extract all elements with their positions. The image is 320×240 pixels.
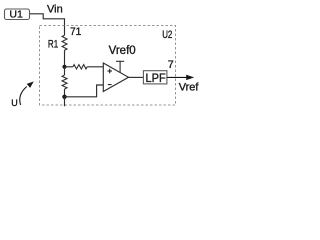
svg-text:LPF: LPF [146,72,166,84]
wire node A to series resistor [65,66,73,68]
svg-text:7: 7 [168,59,174,71]
junction node B [62,95,66,99]
svg-text:Vin: Vin [47,4,63,16]
wire LPF to Vref output [167,76,187,78]
op-amp + input mark [107,69,112,74]
resistor R3 (series to op-amp) [73,65,87,69]
svg-text:U2: U2 [162,29,172,42]
wire R2 bottom to node B [64,89,66,97]
curved annotation arrow [20,87,27,106]
IC block U1 [5,9,30,21]
junction node A [62,65,66,69]
wire R3 to op-amp + input [87,66,103,68]
svg-text:U1: U1 [9,9,23,21]
resistor R1 [62,35,67,50]
resistor R2 (lower divider) [62,75,67,89]
svg-text:Vref0: Vref0 [109,45,136,57]
wire node A to divider resistor [64,67,66,75]
svg-text:71: 71 [70,26,81,38]
op-amp - input mark [108,84,112,86]
block LPF [143,71,167,85]
wire R1 bottom to node A [64,50,66,67]
svg-text:R1: R1 [48,38,58,51]
wire node B to op-amp - input [65,85,104,97]
op-amp power tap T [116,61,124,72]
svg-text:U: U [11,98,18,108]
annotation arrowhead [27,81,34,88]
svg-text:Vref: Vref [179,82,200,94]
output arrowhead [186,75,194,80]
wire U1 output to pin 71 [30,14,65,36]
wire op-amp output to LPF [129,76,144,78]
dashed boundary U2 [40,26,176,106]
pin stub below node B [64,97,66,107]
op-amp U2a triangle [103,63,128,92]
